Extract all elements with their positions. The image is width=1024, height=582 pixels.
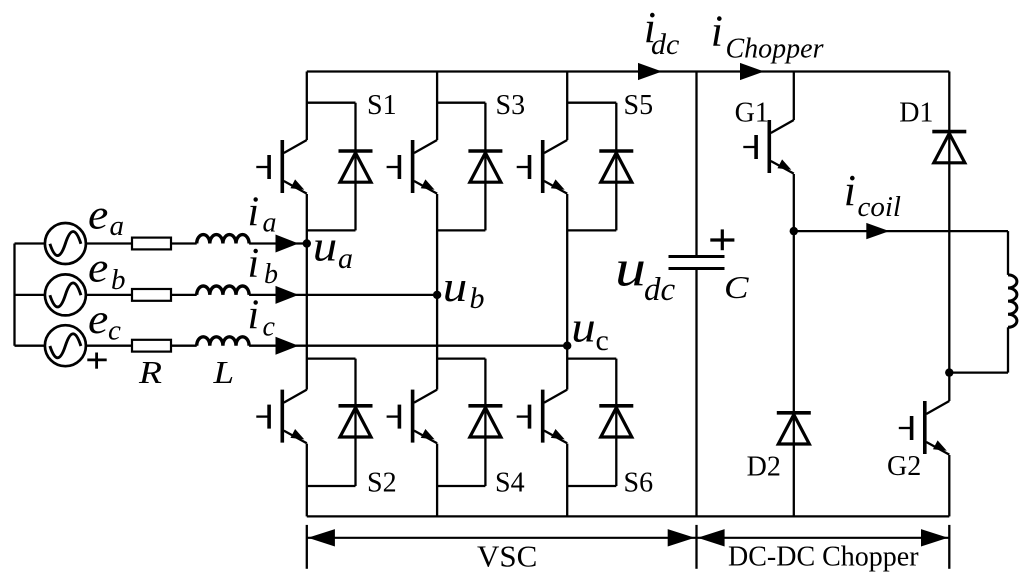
- svg-text:u: u: [313, 224, 338, 271]
- svg-text:c: c: [108, 314, 121, 346]
- svg-text:a: a: [110, 210, 125, 242]
- svg-text:S4: S4: [495, 468, 525, 499]
- svg-text:u: u: [571, 304, 596, 351]
- svg-text:R: R: [138, 354, 163, 390]
- svg-text:D1: D1: [899, 98, 933, 129]
- svg-text:e: e: [88, 193, 108, 239]
- svg-text:u: u: [443, 264, 468, 311]
- svg-text:S6: S6: [624, 468, 654, 499]
- svg-text:S5: S5: [624, 90, 654, 121]
- svg-text:Chopper: Chopper: [726, 33, 824, 64]
- svg-text:L: L: [212, 354, 234, 390]
- svg-text:D2: D2: [747, 451, 781, 482]
- svg-text:u: u: [615, 241, 646, 298]
- svg-text:dc: dc: [651, 28, 679, 61]
- svg-text:a: a: [338, 242, 353, 275]
- svg-text:S2: S2: [367, 468, 397, 499]
- svg-text:dc: dc: [644, 272, 676, 308]
- svg-text:VSC: VSC: [477, 538, 537, 573]
- svg-text:c: c: [263, 311, 276, 342]
- svg-text:a: a: [263, 208, 277, 239]
- svg-text:b: b: [264, 259, 278, 290]
- svg-text:c: c: [596, 324, 609, 357]
- svg-text:i: i: [844, 166, 856, 215]
- svg-text:S1: S1: [367, 90, 397, 121]
- svg-text:G2: G2: [887, 451, 921, 482]
- svg-text:b: b: [111, 264, 126, 296]
- svg-text:b: b: [470, 282, 485, 315]
- svg-text:i: i: [248, 293, 260, 339]
- svg-text:G1: G1: [735, 97, 769, 128]
- svg-text:DC-DC Chopper: DC-DC Chopper: [728, 541, 919, 572]
- svg-text:C: C: [724, 269, 749, 305]
- svg-text:i: i: [248, 241, 260, 287]
- svg-text:S3: S3: [496, 90, 526, 121]
- svg-text:e: e: [88, 245, 108, 291]
- svg-text:i: i: [711, 7, 723, 56]
- svg-text:coil: coil: [858, 191, 902, 223]
- svg-text:e: e: [88, 297, 108, 343]
- svg-text:i: i: [248, 190, 260, 236]
